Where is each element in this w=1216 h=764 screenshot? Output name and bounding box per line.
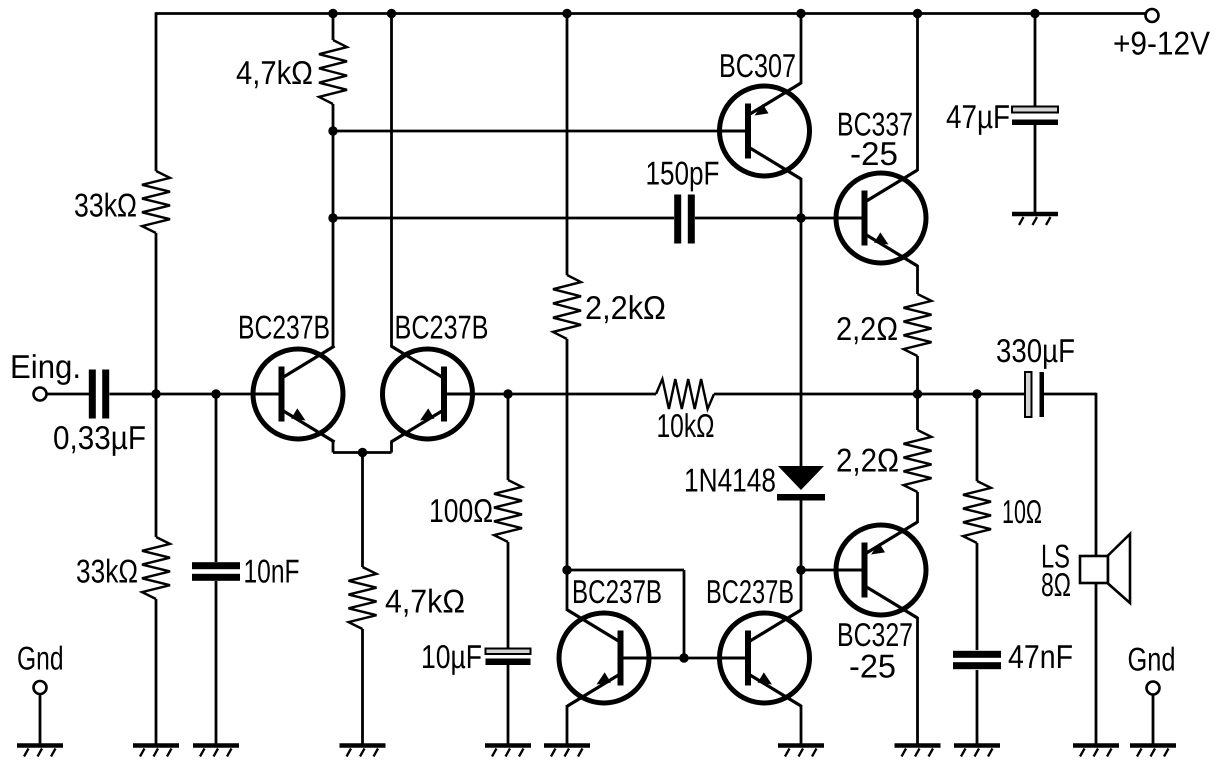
svg-text:+9-12V: +9-12V [1113,25,1210,62]
wire R 4,7k upper to node [332,104,335,131]
resistor 100 Ohm [494,480,522,542]
svg-text:BC307: BC307 [719,47,796,84]
label BC337 -25 [850,135,898,172]
ground left divider [133,746,179,757]
resistor 2,2 lower [904,430,932,492]
wire node to BC307 base [333,130,748,133]
label 100 Ohm [429,492,493,529]
wire Q4 emitter to ground [800,705,803,744]
wire Q3 emitter to ground [566,705,569,744]
node rail x392 [387,9,396,18]
label BC337 [837,106,913,143]
resistor 2,2k [553,275,581,339]
wire R 10k to output node [714,393,1024,396]
diode 1N4148 [777,466,825,501]
svg-text:Eing.: Eing. [10,348,81,385]
label 10kOhm [657,407,715,444]
wire common emitters [333,451,392,454]
svg-text:330µF: 330µF [996,332,1075,369]
wire node to C 150pF [333,217,674,220]
node BC337 base junction [796,213,805,222]
label Eing. [10,348,81,385]
label LS [1041,538,1070,575]
label 33kOhm lower [76,553,138,590]
wire rail to R 2,2k [566,14,569,276]
wire diode to BC327 base node [800,500,803,570]
capacitor 330uF [1025,372,1044,417]
svg-text:Gnd: Gnd [1128,641,1176,678]
wire C 330uF to speaker corner [1044,393,1096,396]
label Q4 BC237B [706,573,794,610]
wire BC337 emitter to R 2,2 upper [916,265,919,294]
ground 47nF [954,746,1000,757]
wire corner down to speaker [1095,393,1098,557]
ground Gnd right [1130,746,1176,757]
wire Gnd left terminal [39,694,42,744]
node common emitter [358,448,367,457]
label 2,2 Ohm upper [836,310,898,347]
svg-text:BC237B: BC237B [238,309,330,346]
wire node to BC337 base [801,217,866,220]
transistor Q1 BC237B [251,346,343,442]
label 10 Ohm [1002,493,1042,530]
label 10nF [244,553,300,590]
label +9-12V [1113,25,1210,62]
transistor BC307 [718,83,810,179]
svg-text:0,33µF: 0,33µF [53,419,146,456]
label Q3 BC237B [572,573,662,610]
wire rail to R 4,7k upper [332,14,335,41]
ground 47uF [1012,214,1058,225]
label Q2 BC237B [395,309,489,346]
wire output to R 2,2 lower [916,394,919,430]
wire mirror node to Q3 collector [566,570,569,611]
wire rail to BC337 collector [916,14,919,172]
capacitor 47nF [953,651,1001,669]
wire C 10nF to ground [215,581,218,744]
label BC327 -25 [849,648,896,685]
capacitor 10nF [192,562,240,581]
ground Gnd left [17,746,63,757]
wire R 100 to C 10uF [507,542,510,648]
wire 33k lower to ground [155,599,158,744]
wire input node to R 33k lower [155,394,158,537]
label 150pF [646,155,720,192]
wire Q3 base to node [625,657,685,660]
wire node to R 100 [507,394,510,480]
wire R 10 to C 47nF [976,543,979,650]
capacitor 47uF [1012,107,1058,126]
wire Gnd right terminal [1152,695,1155,745]
node x216 junction [211,389,220,398]
label BC307 [719,47,796,84]
wire node to BC327 base [801,569,866,572]
node rail x333 [328,9,337,18]
label 0,33uF [53,419,146,456]
label 4,7kOhm upper [236,54,313,91]
wire speaker to ground [1095,583,1098,744]
svg-text:2,2Ω: 2,2Ω [836,310,898,347]
node x333 y131 [328,126,337,135]
wire C 47nF to ground [976,670,979,744]
svg-text:10nF: 10nF [244,553,300,590]
capacitor 0,33uF [89,370,109,419]
svg-text:BC237B: BC237B [395,309,489,346]
svg-text:150pF: 150pF [646,155,720,192]
node x508 junction [503,389,512,398]
wire Q4 collector up [800,570,803,611]
resistor 10k feedback [656,379,714,409]
node x977 junction [972,389,981,398]
wire node to R 10 [976,394,979,481]
transistor Q3 BC237B [559,610,651,706]
wire C 0,33uF to Q1 base [110,393,281,396]
svg-text:47nF: 47nF [1008,638,1073,675]
svg-text:47µF: 47µF [946,98,1010,135]
wire mirror tie horizontal [567,569,684,572]
label 47nF [1008,638,1073,675]
resistor 10 Ohm [963,481,991,543]
svg-text:33kΩ: 33kΩ [76,553,138,590]
wire rail to BC307 emitter [800,14,803,85]
svg-text:10Ω: 10Ω [1002,493,1042,530]
node output [913,389,922,398]
svg-text:8Ω: 8Ω [1041,566,1071,603]
transistor BC327 [834,522,926,618]
label BC327 [837,616,913,653]
svg-text:10µF: 10µF [421,638,482,675]
ground Q3 [544,746,590,757]
node BC327 base [796,565,805,574]
wire Q2 collector up to rail [390,14,393,348]
label 33kOhm upper [74,187,137,224]
wire rail to R 33k upper [155,12,158,171]
ground Q4 [778,746,824,757]
svg-text:4,7kΩ: 4,7kΩ [385,583,465,620]
wire node to diode [800,218,803,466]
svg-text:Gnd: Gnd [17,640,64,677]
svg-text:1N4148: 1N4148 [684,462,776,499]
label Gnd left [17,640,64,677]
node rail x917 [913,9,922,18]
label 8 Ohm [1041,566,1071,603]
svg-text:2,2Ω: 2,2Ω [836,442,899,479]
label 4,7kOhm lower [385,583,465,620]
svg-text:100Ω: 100Ω [429,492,493,529]
terminal +9-12V [1146,9,1159,22]
label 1N4148 [684,462,776,499]
label Q1 BC237B [238,309,330,346]
ground 10nF [193,746,239,757]
label 10uF [421,638,482,675]
label 47uF [946,98,1010,135]
wire C 47uF to ground [1034,125,1037,213]
svg-text:BC237B: BC237B [572,573,662,610]
node current mirror [562,565,571,574]
svg-text:BC237B: BC237B [706,573,794,610]
wire C 150pF to node [695,217,801,220]
wire node to C 10nF [215,394,218,562]
wire R 2,2k to mirror node [566,339,569,570]
node rail x1035 [1030,9,1039,18]
wire +V rail [156,12,1146,15]
wire R 4,7k lower to ground [361,629,364,744]
label 2,2kOhm [585,289,666,326]
wire Q1 collector up [332,218,335,347]
svg-text:10kΩ: 10kΩ [657,407,715,444]
svg-text:33kΩ: 33kΩ [74,187,137,224]
resistor 4,7k upper [319,40,347,104]
wire R 2,2 lower to BC327 emitter [916,492,919,523]
resistor 4,7k lower [349,567,377,629]
speaker LS 8 Ohm [1080,534,1130,603]
resistor 33k upper [142,171,170,233]
svg-text:-25: -25 [849,648,896,685]
label Gnd right [1128,641,1176,678]
transistor Q4 BC237B [718,610,810,706]
wire mirror tie vertical [683,570,686,658]
label 2,2 Ohm lower [836,442,899,479]
resistor 33k lower [142,537,170,599]
ground diff pair [340,746,386,757]
transistor Q2 BC237B [383,346,475,442]
wire node to node x333 [332,131,335,218]
wire Q2 base to R 10k [448,393,656,396]
wire R 2,2 upper to output [916,356,919,394]
ground 10uF [485,746,531,757]
wire BC327 collector to ground [916,617,919,744]
terminal Gnd right [1147,682,1160,695]
wire 33k upper to input node [155,233,158,394]
node Q3 Q4 bases [679,653,688,662]
svg-text:-25: -25 [850,135,898,172]
node input junction at x156 [151,389,160,398]
node rail x801 [796,9,805,18]
terminal Gnd left [34,681,47,694]
wire BC307 collector down [800,178,803,218]
ground speaker [1073,746,1119,757]
wire rail to C 47uF [1034,14,1037,107]
wire input terminal to C 0,33uF [47,393,90,396]
capacitor 150pF [674,195,695,244]
node rail x567 [562,9,571,18]
wire Q1 emitter down [332,441,335,453]
wire emitter node to R 4,7k lower [361,453,364,568]
ground BC327 [895,746,941,757]
resistor 2,2 upper [904,294,932,356]
terminal Eing input [34,388,47,401]
wire Q2 emitter down [390,441,393,453]
wire node to Q4 base [684,657,748,660]
node x333 y218 [328,213,337,222]
svg-text:4,7kΩ: 4,7kΩ [236,54,313,91]
transistor BC337 [834,170,926,266]
label 330uF [996,332,1075,369]
svg-text:2,2kΩ: 2,2kΩ [585,289,666,326]
capacitor 10uF [486,649,531,666]
wire C 10uF to ground [507,665,510,744]
